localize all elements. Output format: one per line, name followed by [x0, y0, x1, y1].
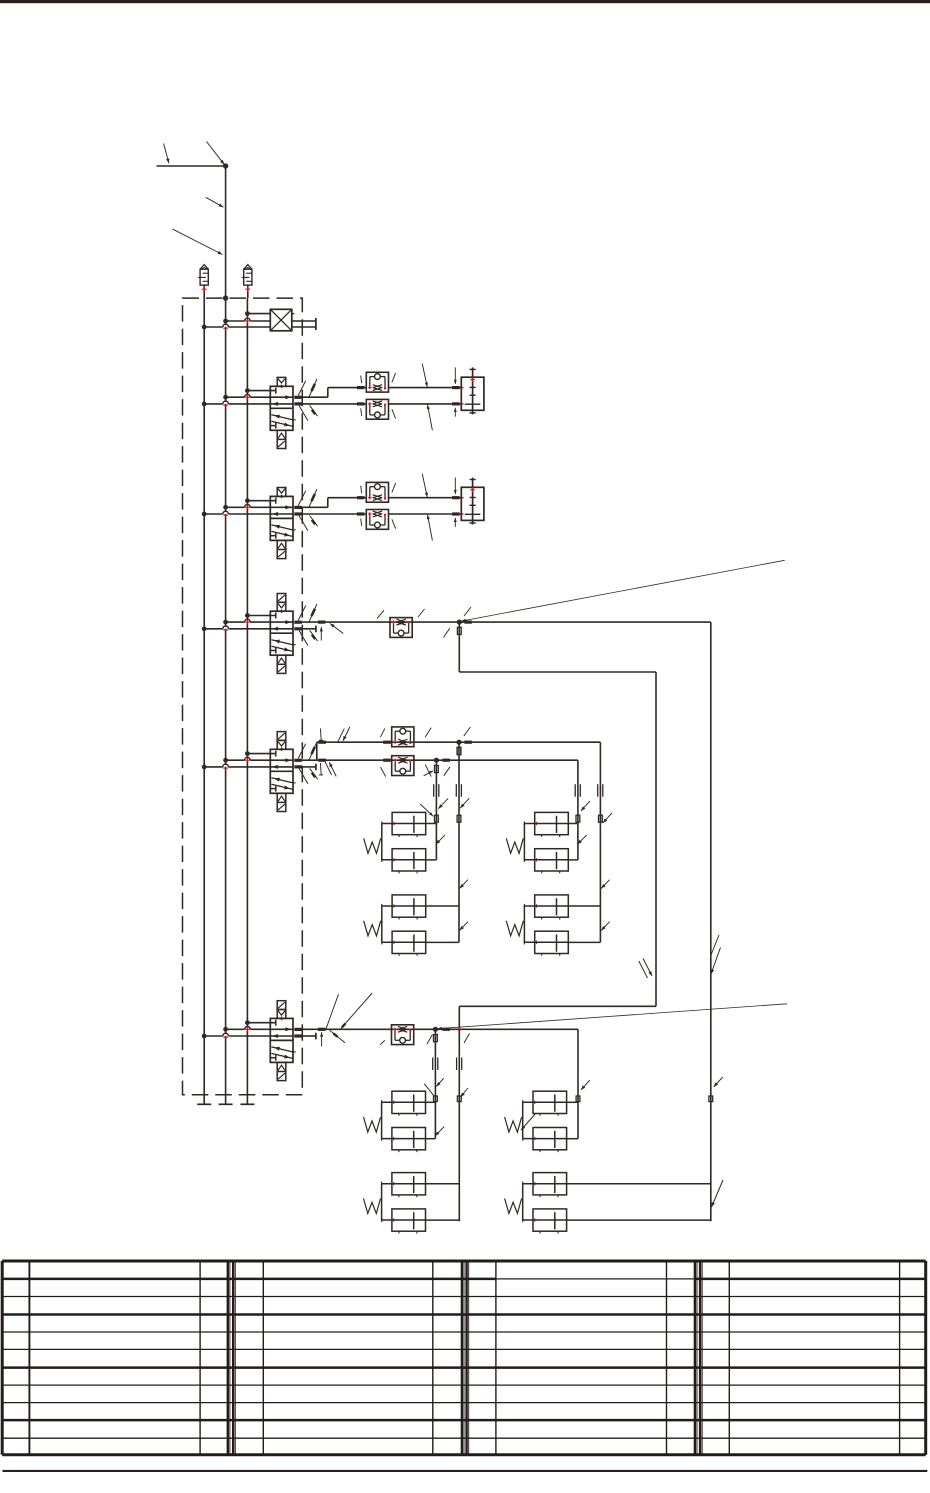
cylinder A1	[461, 377, 484, 410]
wire to shutoff bottom	[204, 326, 223, 328]
wire bus to cluster F	[458, 1029, 460, 1221]
wire FC1b to cylinder	[389, 403, 462, 405]
wire to shutoff top	[247, 313, 270, 315]
wire bus to cluster D	[599, 742, 601, 942]
valve V1 (5/2 solenoid spring)	[277, 377, 286, 386]
wire FC1a to cylinder	[389, 387, 462, 389]
wire V4 port A tee	[302, 759, 578, 761]
wire cluster B ports	[426, 905, 459, 907]
wire bus to cluster A	[435, 760, 437, 860]
filter F2	[244, 269, 252, 285]
node row4 top junction	[456, 740, 461, 745]
flow control FC3	[390, 618, 412, 638]
vacuum unit cluster E	[392, 1091, 426, 1113]
flow control FC2b	[366, 510, 388, 530]
top page border bar	[0, 0, 930, 3]
wire V2 port B	[302, 513, 367, 515]
leader slashes row 3	[320, 627, 322, 641]
valve manifold enclosure (dashed)	[183, 298, 303, 1095]
flow control FC5	[392, 1025, 414, 1045]
vacuum unit cluster C	[535, 812, 569, 834]
valve V1 left wiring nodes	[245, 388, 250, 393]
wire outer loop to cluster H	[710, 622, 712, 1221]
wire V1 port A with jog	[302, 396, 328, 398]
wire V5 port A long	[302, 1028, 578, 1030]
wire FC2a to cylinder	[389, 497, 462, 499]
wire FC2b to cylinder	[389, 513, 462, 515]
flow control FC4a	[392, 727, 414, 747]
fitting below row5 junction	[434, 1035, 438, 1042]
wire bus to cluster E	[434, 1029, 436, 1138]
vacuum unit cluster H	[533, 1173, 567, 1195]
leader slashes clusters bottom	[424, 1084, 434, 1096]
parts table grid	[2, 1260, 926, 1263]
valve V2 (5/2 solenoid spring)	[277, 488, 286, 497]
fitting below row4 bottom junction	[435, 765, 439, 772]
cylinder A2 leader arrows	[454, 478, 456, 495]
flow control FC4b	[392, 756, 414, 776]
fitting below row4 top junction	[457, 747, 461, 754]
plug cap bar	[315, 318, 317, 330]
valve V5 left wiring nodes	[245, 1020, 250, 1025]
leader arrow 2	[207, 142, 225, 165]
node X1 bottom	[202, 325, 207, 330]
node row5 junction 2 (loop)	[458, 1028, 461, 1031]
wire inner loop	[458, 622, 460, 672]
valve V2 left wiring nodes	[245, 498, 250, 503]
node row3 junction	[457, 620, 462, 625]
leader slashes row 2	[422, 474, 427, 498]
node row4 bottom junction	[434, 758, 439, 763]
wire bus to cluster C	[577, 760, 579, 860]
wire main supply vertical	[225, 166, 227, 1104]
leader long row3	[461, 560, 784, 621]
leader slashes row 5	[321, 1032, 323, 1046]
leader slashes row 4	[319, 728, 322, 740]
node X1 top	[245, 311, 250, 316]
node manifold inlet	[223, 295, 228, 300]
cylinder A2	[461, 487, 484, 520]
valve V4 (5/2 double pilot)	[277, 732, 286, 741]
wire supply header horizontal	[157, 165, 227, 167]
leader long row5	[437, 1004, 787, 1029]
bottom page rule	[3, 1470, 928, 1472]
cylinder A1 leader arrows	[454, 367, 456, 384]
valve V5 (5/2 double pilot)	[277, 1001, 286, 1010]
wire cluster A ports	[426, 823, 437, 825]
leader slashes clusters mid	[424, 771, 433, 776]
wire bus to cluster B	[458, 742, 460, 942]
vacuum unit cluster B	[392, 895, 426, 917]
wire V4 port B capped	[302, 766, 316, 768]
node row5 junction 1	[433, 1027, 438, 1032]
wire V3 port B capped	[302, 628, 316, 630]
wire cluster C ports	[568, 823, 578, 825]
bus terminator bars	[197, 1103, 211, 1105]
valve V3 (5/2 double pilot)	[277, 594, 286, 603]
vacuum unit cluster G	[533, 1091, 567, 1113]
wire to shutoff mid	[226, 320, 245, 322]
wire V1 port B	[302, 403, 367, 405]
filter F1	[200, 269, 208, 285]
leader arrow 3	[206, 197, 224, 207]
wire shutoff outlet upper	[292, 320, 316, 322]
wire bus line left	[203, 298, 205, 1104]
node X1 mid	[223, 319, 228, 324]
leader arrow 1	[164, 144, 169, 164]
leader arrow 4	[172, 229, 222, 255]
shutoff valve X1 (crossed box)	[270, 309, 292, 331]
wire V2 port A with jog	[302, 506, 328, 508]
flow control FC1b	[366, 399, 388, 419]
node supply junction	[223, 163, 228, 168]
vacuum unit cluster D	[535, 895, 569, 917]
wire V3 port A long	[302, 621, 711, 623]
wire cluster F ports	[426, 1183, 460, 1185]
wire bus line right	[246, 298, 248, 1104]
fitting below row3 junction	[457, 627, 461, 634]
wire cluster G ports	[567, 1101, 578, 1103]
wire cluster D ports	[568, 905, 600, 907]
wire bus to cluster G	[577, 1029, 579, 1138]
leader slashes loop	[643, 958, 652, 976]
leader slashes row 1	[422, 364, 427, 388]
vacuum unit cluster A	[392, 812, 426, 834]
valve V4 left wiring nodes	[245, 751, 250, 756]
wire cluster E ports	[426, 1101, 436, 1103]
wire cluster H ports	[567, 1183, 711, 1185]
flow control FC2a	[366, 482, 388, 502]
wire V5 port B capped	[302, 1035, 316, 1037]
vacuum unit cluster F	[392, 1173, 426, 1195]
wire shutoff outlet lower	[292, 326, 316, 328]
valve V3 left wiring nodes	[245, 613, 250, 618]
flow control FC1a	[366, 372, 388, 392]
